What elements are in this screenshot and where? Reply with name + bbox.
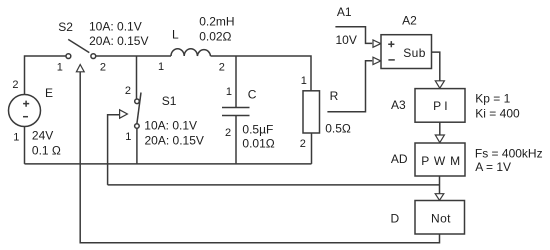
svg-text:Fs = 400kHz: Fs = 400kHz xyxy=(475,146,543,160)
svg-text:20A: 0.15V: 20A: 0.15V xyxy=(145,133,204,147)
svg-text:2: 2 xyxy=(225,127,231,139)
svg-text:0.5Ω: 0.5Ω xyxy=(325,122,351,136)
svg-text:C: C xyxy=(248,87,257,101)
svg-text:2: 2 xyxy=(219,62,225,74)
svg-text:0.5µF: 0.5µF xyxy=(242,122,273,136)
resistor R xyxy=(303,91,320,133)
switch S2 xyxy=(66,39,96,58)
ground rail xyxy=(25,163,312,165)
wire E bottom to ground rail xyxy=(24,127,26,164)
svg-text:Kp = 1: Kp = 1 xyxy=(475,92,510,106)
Sub minus sign xyxy=(388,59,394,61)
wire S2 to inductor xyxy=(96,55,171,57)
arrow into PWM xyxy=(435,135,444,143)
arrow into PI xyxy=(435,81,444,88)
wire R to ground xyxy=(311,133,313,164)
S1 gate wire xyxy=(108,115,120,185)
svg-text:1: 1 xyxy=(158,61,164,73)
Sub plus sign xyxy=(388,41,394,47)
svg-text:E: E xyxy=(45,86,53,100)
svg-text:2: 2 xyxy=(12,79,18,91)
svg-text:0.1 Ω: 0.1 Ω xyxy=(32,143,61,157)
PI block A3 xyxy=(415,89,465,123)
wire PWM to Not with tap xyxy=(439,176,441,194)
svg-text:Ki = 400: Ki = 400 xyxy=(475,106,520,120)
svg-text:1: 1 xyxy=(57,62,63,74)
svg-text:10A: 0.1V: 10A: 0.1V xyxy=(89,20,142,34)
Not block D xyxy=(415,201,465,235)
svg-text:R: R xyxy=(330,89,339,103)
svg-text:A3: A3 xyxy=(391,98,406,112)
voltage source E xyxy=(9,95,41,127)
svg-text:D: D xyxy=(391,211,400,225)
svg-text:2: 2 xyxy=(125,85,131,97)
wire Not output to S2 gate xyxy=(80,72,439,243)
capacitor C xyxy=(222,108,250,116)
svg-text:A2: A2 xyxy=(402,14,417,28)
svg-text:1: 1 xyxy=(301,75,307,87)
svg-text:A1: A1 xyxy=(337,5,352,19)
svg-text:A = 1V: A = 1V xyxy=(475,160,511,174)
summing block A2 Sub xyxy=(381,35,432,69)
svg-text:1: 1 xyxy=(13,131,19,143)
arrow into Sub minus xyxy=(373,57,381,64)
svg-text:0.02Ω: 0.02Ω xyxy=(199,30,231,44)
wire PI to PWM xyxy=(439,122,441,135)
wire E top to S2 xyxy=(25,56,66,95)
A1 wire xyxy=(335,27,372,44)
PWM block AD xyxy=(415,143,465,176)
S1 gate arrow xyxy=(120,110,128,118)
wire Sub to PI xyxy=(432,52,440,81)
svg-text:S2: S2 xyxy=(58,20,73,34)
svg-text:P W M: P W M xyxy=(421,154,461,168)
svg-text:Sub: Sub xyxy=(403,46,426,60)
svg-text:20A: 0.15V: 20A: 0.15V xyxy=(89,34,148,48)
svg-text:0.01Ω: 0.01Ω xyxy=(242,136,274,150)
S2 gate arrow xyxy=(76,65,84,72)
svg-text:S1: S1 xyxy=(162,94,177,108)
arrow into Sub plus xyxy=(373,40,381,47)
wire top to S1 xyxy=(136,56,138,99)
svg-text:10V: 10V xyxy=(336,33,357,47)
wire capacitor to ground xyxy=(235,116,237,164)
node Vo sense wire to Sub minus xyxy=(327,61,372,112)
wire S1 to ground xyxy=(136,128,138,164)
svg-text:Not: Not xyxy=(431,212,451,226)
svg-text:24V: 24V xyxy=(32,129,53,143)
svg-text:AD: AD xyxy=(391,152,408,166)
inductor L xyxy=(171,49,211,56)
svg-text:10A: 0.1V: 10A: 0.1V xyxy=(144,119,197,133)
svg-text:1: 1 xyxy=(226,86,232,98)
svg-text:P I: P I xyxy=(433,99,447,113)
arrow into Not xyxy=(435,194,444,201)
wire PWM tap to S1 gate xyxy=(108,184,440,186)
svg-text:L: L xyxy=(172,27,179,41)
wire inductor to R branch xyxy=(211,56,312,91)
svg-text:0.2mH: 0.2mH xyxy=(199,15,234,29)
svg-text:2: 2 xyxy=(100,62,106,74)
switch S1 xyxy=(135,93,141,129)
svg-text:2: 2 xyxy=(300,138,306,150)
wire top to capacitor xyxy=(235,56,237,108)
svg-text:1: 1 xyxy=(125,131,131,143)
